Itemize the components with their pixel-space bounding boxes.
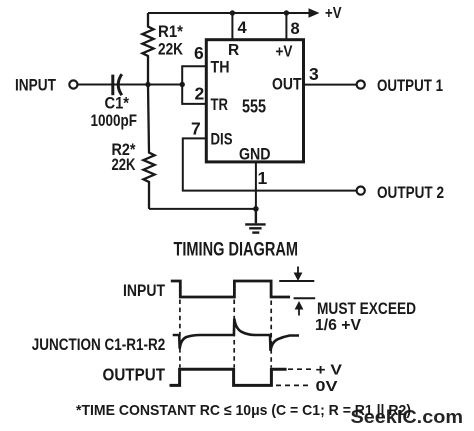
svg-text:JUNCTION C1-R1-R2: JUNCTION C1-R1-R2 [32,336,166,354]
svg-text:7: 7 [191,119,201,139]
wire: +V top rail [148,12,310,14]
tick: upper level line [279,280,314,282]
svg-text:OUTPUT 1: OUTPUT 1 [377,76,443,95]
svg-text:TR: TR [211,95,229,114]
waveform: junction trace [173,319,299,351]
arrowhead +V [309,8,320,18]
svg-text:DIS: DIS [211,130,233,149]
wire: input line [78,84,183,86]
svg-text:MUST EXCEED: MUST EXCEED [317,299,416,318]
arrow down (must exceed) [297,267,299,274]
svg-text:0V: 0V [316,379,338,395]
capacitor C1 [113,74,122,95]
svg-text:2: 2 [195,84,205,104]
svg-text:8: 8 [291,20,300,38]
node: ground junction dot [253,206,259,212]
dashed level +V [288,368,312,370]
tick: lower level line [294,297,316,299]
svg-text:555: 555 [242,96,266,117]
node: dot pin4/rail [230,10,235,15]
svg-text:4: 4 [238,19,248,37]
dashed level 0V [276,384,312,386]
svg-text:OUTPUT: OUTPUT [103,365,166,385]
svg-text:+V: +V [276,44,294,61]
svg-text:INPUT: INPUT [15,76,56,95]
wire: pin 8 [285,13,287,40]
output 2 terminal circle [357,187,365,195]
dashed guide line 2 [233,300,235,368]
wire: GND pin 1 [255,162,257,209]
wire: OUT pin 3 to OUTPUT 1 [304,84,357,86]
svg-text:6: 6 [194,43,204,63]
svg-text:C1*: C1* [105,95,130,113]
wire: R2 bottom to ground junction [149,208,256,210]
resistor R2 [143,85,154,209]
ground [245,209,265,233]
svg-text:INPUT: INPUT [123,282,165,300]
svg-text:+ V: + V [316,363,343,379]
svg-text:TIMING DIAGRAM: TIMING DIAGRAM [174,239,299,261]
dashed guide line 3 [270,301,272,368]
arrow up (must exceed) [298,309,300,316]
svg-text:GND: GND [239,145,271,164]
wire: pin 4 [231,13,233,40]
svg-text:+V: +V [325,5,342,22]
svg-text:1000pF: 1000pF [91,112,138,130]
wire: TH/TR bracket [182,66,206,104]
output 1 terminal circle [357,81,365,89]
node: junction R1/C1/R2 [145,82,150,87]
dashed guide line 1 [179,300,181,368]
svg-text:R: R [228,42,239,59]
svg-text:22K: 22K [112,155,137,174]
resistor R1 [142,13,153,85]
svg-text:TH: TH [211,58,230,77]
svg-text:22K: 22K [158,40,184,59]
svg-text:R1*: R1* [158,22,183,41]
node: junction TH/TR bracket [180,82,185,87]
node: dot pin8/rail [284,10,289,15]
waveform: output trace [170,369,287,385]
op: 555 IC body [206,40,303,162]
svg-text:*TIME CONSTANT RC ≤ 10μs (C =: *TIME CONSTANT RC ≤ 10μs (C = C1; R = R1… [76,402,411,419]
svg-text:1/6 +V: 1/6 +V [315,317,362,334]
svg-text:3: 3 [309,64,319,84]
wire: DIS to OUTPUT 2 line [183,138,357,190]
svg-text:OUTPUT 2: OUTPUT 2 [377,183,444,202]
waveform: input trace [171,281,290,297]
svg-text:OUT: OUT [272,75,302,94]
svg-text:1: 1 [258,168,268,188]
input terminal circle [69,80,77,88]
